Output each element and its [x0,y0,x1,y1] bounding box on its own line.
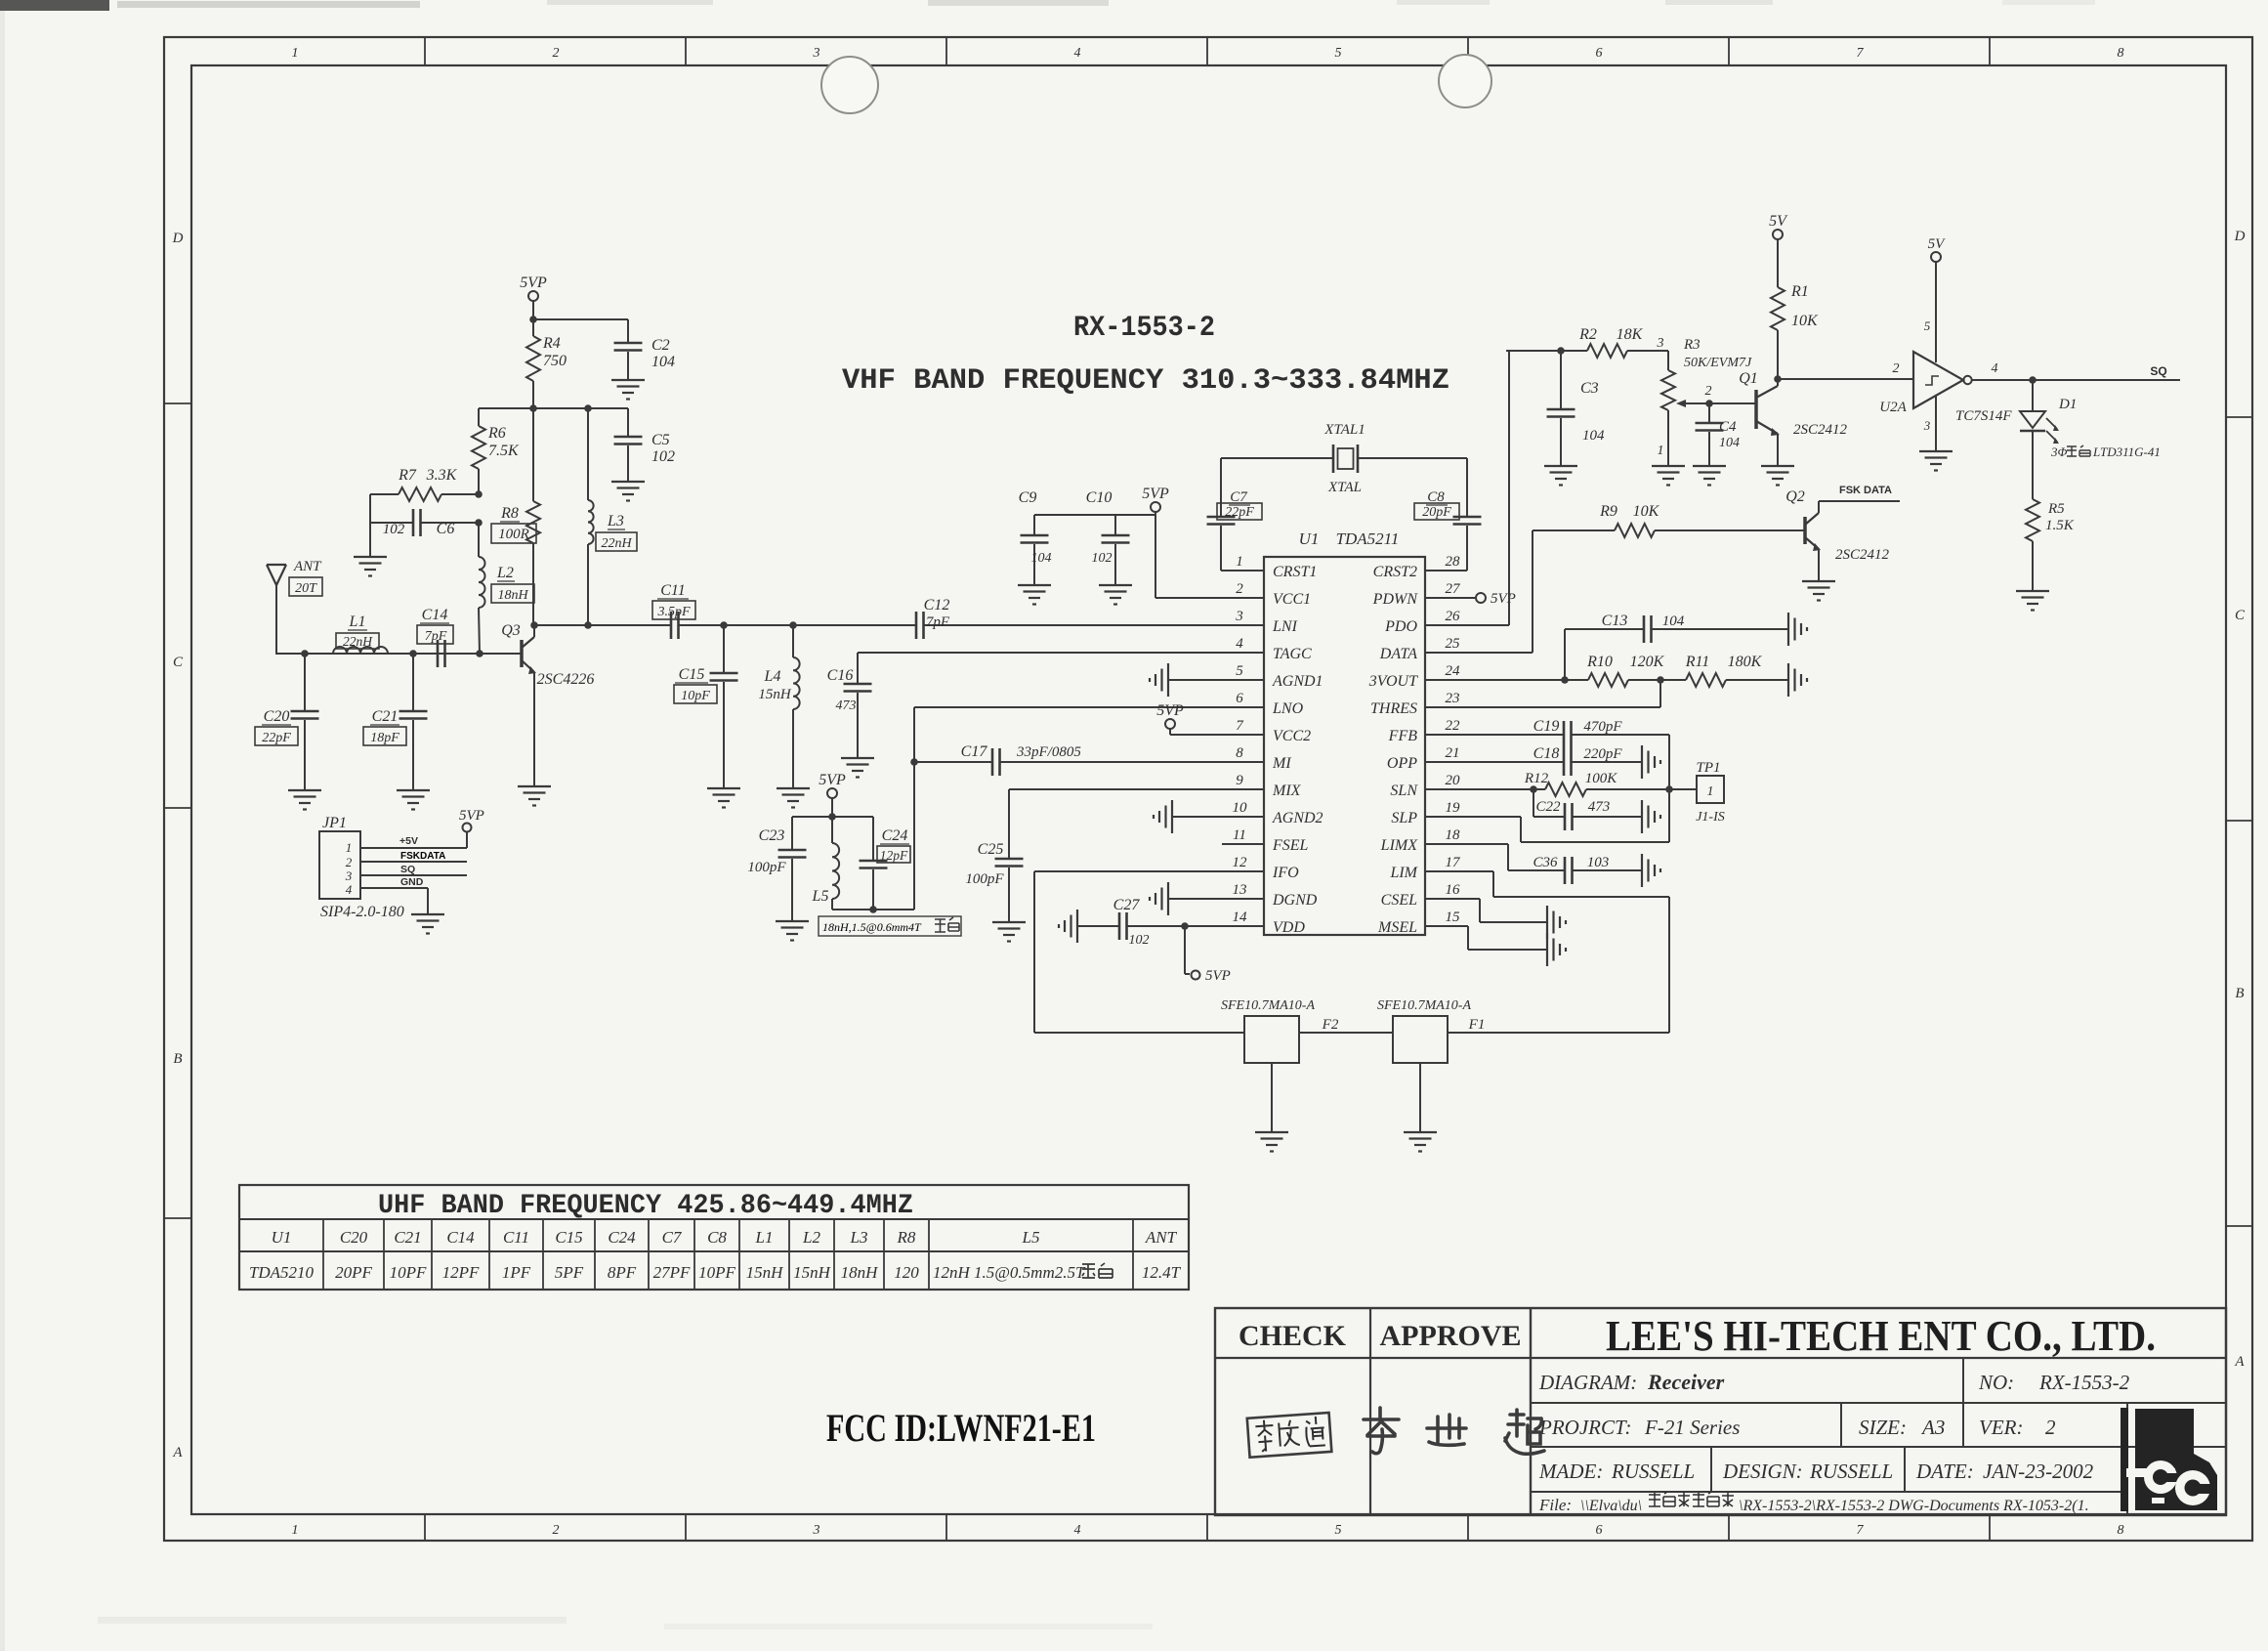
svg-text:5V: 5V [1928,236,1947,252]
svg-text:L5: L5 [812,888,829,905]
svg-text:5: 5 [1924,318,1931,333]
node LNO/C17 [910,758,918,766]
svg-text:+5V: +5V [399,835,418,847]
node R4/C2 junction [529,316,537,323]
svg-text:12PF: 12PF [442,1263,480,1282]
ground (R5) [2016,590,2049,592]
svg-text:DESIGN:: DESIGN: [1722,1460,1803,1483]
svg-text:C20: C20 [340,1228,368,1247]
ground (L4) [777,787,810,789]
svg-text:8PF: 8PF [608,1263,637,1282]
resistor R10 [1565,679,1588,681]
svg-text:5: 5 [1335,1523,1342,1538]
svg-text:RX-1553-2: RX-1553-2 [1073,312,1215,345]
capacitor C21 [412,654,414,710]
svg-text:VCC2: VCC2 [1273,728,1311,744]
svg-text:U1: U1 [1299,529,1320,548]
node 3VOUT/C13 [1561,676,1569,684]
svg-text:MADE:: MADE: [1538,1460,1603,1483]
power terminal 5VP (PDWN) [1476,593,1486,603]
svg-text:DATA: DATA [1379,646,1417,662]
node SLN/R12/C22 [1530,785,1537,793]
svg-text:3Φ: 3Φ [2050,444,2068,459]
svg-text:15nH: 15nH [793,1263,832,1282]
svg-text:JP1: JP1 [322,815,347,831]
svg-text:C24: C24 [608,1228,636,1247]
svg-text:4: 4 [1992,361,1998,376]
svg-text:C14: C14 [446,1228,475,1247]
svg-text:3.3K: 3.3K [426,467,458,484]
svg-text:17: 17 [1446,855,1462,870]
svg-text:MI: MI [1272,755,1291,772]
svg-text:C17: C17 [961,743,988,760]
svg-text:R1: R1 [1790,283,1809,300]
svg-text:C5: C5 [651,432,670,448]
capacitor C18 [1425,761,1564,763]
svg-text:20PF: 20PF [335,1263,372,1282]
svg-text:C16: C16 [827,667,854,684]
svg-text:C7: C7 [662,1228,683,1247]
ground (C16) [841,757,874,759]
ground (JP1) [411,913,444,915]
wire DATA pin25 [1425,652,1533,654]
svg-text:12pF: 12pF [880,848,908,863]
wire Q1 to U2A [1778,378,1913,380]
transistor Q3 [520,640,524,667]
capacitor C2 [627,319,629,342]
svg-text:5VP: 5VP [1491,591,1516,607]
svg-text:C13: C13 [1602,613,1628,629]
svg-text:10: 10 [1233,800,1248,816]
svg-text:2: 2 [1236,581,1243,597]
potentiometer R3 50K/EVM7J [1667,351,1669,370]
svg-text:2: 2 [1705,384,1712,399]
ground (C6 leg) [354,556,387,558]
node R6/R7 [475,490,483,498]
resistor R12 [1545,783,1586,796]
svg-text:5VP: 5VP [459,808,484,824]
ground (Q2 emitter) [1802,580,1835,582]
wire tank bottom rail [832,909,914,910]
svg-text:5: 5 [1335,46,1342,61]
connector JP1 [319,831,360,899]
wire U2A gnd pin3 [1935,396,1937,450]
resistor R8 [532,408,534,501]
transistor Q2 [1803,517,1807,544]
svg-text:5VP: 5VP [819,772,846,788]
svg-text:16: 16 [1446,882,1461,898]
capacitor C17 [914,761,992,763]
svg-text:Q3: Q3 [501,622,521,639]
svg-text:SFE10.7MA10-A: SFE10.7MA10-A [1377,998,1471,1013]
svg-text:18nH,1.5@0.6mm4T: 18nH,1.5@0.6mm4T [822,920,922,934]
svg-text:102: 102 [1129,933,1150,948]
svg-text:103: 103 [1587,855,1610,870]
svg-text:UHF BAND FREQUENCY 425.86~449.: UHF BAND FREQUENCY 425.86~449.4MHZ [378,1191,913,1221]
wire JP1 pin4 GND [360,887,428,889]
svg-text:7: 7 [1857,46,1865,61]
svg-text:102: 102 [1092,551,1113,566]
svg-text:18pF: 18pF [370,731,399,745]
svg-text:R5: R5 [2047,501,2065,517]
ground (C9) [1018,584,1051,586]
svg-text:C: C [173,655,184,670]
svg-text:4: 4 [1074,1523,1081,1538]
power terminal 5VP (L5 tank) [827,788,837,798]
capacitor C3 [1560,351,1562,408]
svg-text:DIAGRAM:: DIAGRAM: [1538,1371,1637,1394]
capacitor C36 [1425,843,1508,845]
wire FSK DATA net [1819,500,1900,502]
wire VCC1 net [1155,512,1156,598]
svg-text:ANT: ANT [293,559,322,574]
svg-text:CRST1: CRST1 [1273,564,1317,580]
svg-text:5: 5 [1236,663,1243,679]
svg-text:F-21 Series: F-21 Series [1644,1416,1740,1439]
ground (C25) [992,921,1026,923]
wire PDWN pin27 [1425,597,1476,599]
svg-text:R8: R8 [897,1228,916,1247]
svg-text:R2: R2 [1578,326,1597,343]
svg-text:C14: C14 [422,607,448,623]
svg-text:180K: 180K [1728,654,1763,670]
svg-text:26: 26 [1446,609,1461,624]
svg-text:104: 104 [651,354,675,370]
svg-text:7pF: 7pF [425,629,447,644]
svg-text:4: 4 [1074,46,1081,61]
svg-text:VHF BAND FREQUENCY 310.3~333.8: VHF BAND FREQUENCY 310.3~333.84MHZ [842,364,1449,398]
svg-text:10pF: 10pF [681,689,710,703]
resistor R2 [1506,350,1561,352]
svg-text:L3: L3 [850,1228,868,1247]
stamp (checker seal) [1247,1413,1332,1458]
svg-text:6: 6 [1596,1523,1603,1538]
svg-text:4: 4 [346,882,353,897]
node R4 bottom [529,404,537,412]
ground (C10) [1099,584,1132,586]
capacitor C10 [1114,515,1116,534]
capacitor C23 [791,817,793,849]
ground (C5) [611,481,645,483]
table UHF band values [239,1185,1189,1290]
svg-text:SIZE:: SIZE: [1859,1416,1907,1439]
svg-text:18: 18 [1446,827,1461,843]
svg-text:104: 104 [1582,428,1605,444]
svg-text:28: 28 [1446,554,1461,570]
node R10/R11 [1657,676,1664,684]
op-amp U2A TC7S14F (inverter) [1913,352,1963,408]
svg-text:FSKDATA: FSKDATA [400,851,445,862]
svg-text:5VP: 5VP [1142,486,1169,502]
svg-text:18nH: 18nH [497,588,528,603]
svg-text:LNI: LNI [1272,618,1298,635]
node C15 tap [720,621,728,629]
svg-text:100pF: 100pF [747,860,786,875]
svg-text:SIP4-2.0-180: SIP4-2.0-180 [320,904,404,920]
node C20 tap [301,650,309,657]
wire PDO pin26 [1425,624,1509,626]
ground (CSEL) [1546,906,1548,939]
svg-text:TAGC: TAGC [1273,646,1312,662]
svg-text:3: 3 [1923,418,1931,433]
wire U2A 5V pin5 [1935,262,1937,362]
svg-text:473: 473 [836,698,857,713]
svg-text:33pF/0805: 33pF/0805 [1016,744,1081,760]
svg-text:1PF: 1PF [502,1263,531,1282]
power terminal 5VP (VCC1) [1151,502,1160,512]
svg-text:25: 25 [1446,636,1461,652]
wire 3VOUT pin24 [1425,679,1565,681]
svg-text:J1-IS: J1-IS [1696,810,1725,825]
svg-text:24: 24 [1446,663,1461,679]
wire IFO pin12 [1034,870,1264,872]
logo (Lee) [2121,1408,2217,1511]
wire JP1 pin1 +5V [360,847,467,849]
wire TAGC net [858,652,1264,654]
svg-text:L2: L2 [496,565,514,581]
ground (F2) [1255,1131,1288,1133]
svg-text:File:: File: [1538,1496,1572,1514]
ground (C21) [397,789,430,791]
ground (MSEL) [1546,933,1548,966]
svg-text:11: 11 [1233,827,1246,843]
inductor L4 [792,625,794,657]
power terminal 5V (R1) [1773,230,1783,239]
svg-text:3: 3 [1657,336,1664,351]
wire SLN pin20 [1425,788,1533,790]
signature (approver) [1364,1408,1544,1454]
svg-text:1: 1 [292,1523,299,1538]
svg-text:JAN-23-2002: JAN-23-2002 [1983,1460,2094,1483]
svg-text:12: 12 [1233,855,1248,870]
wire C19 feedback leg [1668,735,1670,842]
antenna ANT [267,564,286,566]
value note L5 winding [819,916,961,936]
node L3 bottom [584,621,592,629]
node VDD tap [1181,922,1189,930]
inductor L5 [831,817,833,843]
power terminal 5VP (VCC2 pin7) [1165,719,1175,729]
svg-text:LIMX: LIMX [1380,837,1419,854]
ground (C3) [1544,465,1577,467]
svg-text:VDD: VDD [1273,919,1305,936]
wire JP1 pin2 FSKDATA [360,861,467,863]
wire CRST2 [1425,570,1467,571]
svg-text:U1: U1 [272,1228,292,1247]
ground (C27 left) [1076,910,1078,943]
node D1 tap [2029,376,2037,384]
node Q1 collector [1774,375,1782,383]
svg-text:8: 8 [2118,1523,2124,1538]
svg-text:IFO: IFO [1272,865,1299,881]
svg-text:C15: C15 [679,666,705,683]
svg-text:R10: R10 [1586,654,1613,670]
wire SQ output [1972,379,2180,381]
svg-text:C18: C18 [1533,745,1560,762]
ground (R11) [1787,663,1789,697]
svg-text:VER:: VER: [1979,1416,2023,1439]
svg-text:15nH: 15nH [758,687,792,702]
svg-text:22: 22 [1446,718,1461,734]
svg-text:C12: C12 [924,597,950,614]
svg-text:C20: C20 [264,708,290,725]
svg-text:XTAL1: XTAL1 [1323,422,1365,438]
power terminal 5VP (VDD) [1192,971,1200,980]
svg-text:FFB: FFB [1388,728,1418,744]
svg-text:23: 23 [1446,691,1460,706]
svg-text:C8: C8 [707,1228,727,1247]
testpoint TP1 J1-IS [1697,776,1724,803]
power terminal 5VP (JP1) [463,824,472,832]
wire CSEL pin16 [1425,898,1480,900]
svg-text:TP1: TP1 [1696,760,1720,776]
svg-text:102: 102 [651,448,675,465]
svg-text:R11: R11 [1685,654,1710,670]
capacitor C4 [1708,403,1710,422]
svg-text:2SC2412: 2SC2412 [1835,547,1890,563]
capacitor C20 [304,654,306,710]
ground (AGND2 pin10) [1172,816,1264,818]
svg-text:MIX: MIX [1272,783,1302,799]
svg-text:C15: C15 [555,1228,582,1247]
wire 5VP rail to C2 [533,318,628,320]
wire F1 to LIM [1448,1032,1669,1034]
wire antenna rail [275,653,522,655]
svg-text:100K: 100K [1585,771,1618,786]
svg-text:L5: L5 [1022,1228,1040,1247]
svg-text:22pF: 22pF [1225,505,1254,520]
svg-text:FCC ID:LWNF21-E1: FCC ID:LWNF21-E1 [826,1406,1096,1450]
svg-text:102: 102 [383,522,405,537]
svg-text:B: B [2235,986,2244,1001]
svg-text:5PF: 5PF [555,1263,584,1282]
capacitor C22 [1533,789,1534,817]
svg-text:D1: D1 [2058,397,2077,412]
capacitor C9 [1033,515,1035,534]
ground (C18) [1641,745,1643,779]
svg-text:2: 2 [553,1523,560,1538]
svg-text:SQ: SQ [2150,364,2166,378]
svg-text:L4: L4 [764,668,781,685]
svg-text:1: 1 [346,840,353,855]
ground (F1) [1404,1131,1437,1133]
capacitor C13 [1565,628,1644,630]
svg-text:A: A [2234,1354,2245,1370]
svg-text:220pF: 220pF [1583,746,1622,762]
ground (DGND pin13) [1168,898,1264,900]
capacitor C27 [1077,925,1119,927]
svg-text:10PF: 10PF [390,1263,427,1282]
ground (Q3 emitter) [518,785,551,787]
svg-text:A: A [172,1445,183,1460]
svg-text:120K: 120K [1630,654,1665,670]
svg-text:3: 3 [345,868,353,883]
wire crystal right [1358,457,1467,459]
title block [1215,1308,2226,1515]
svg-text:21: 21 [1446,745,1460,761]
svg-text:3VOUT: 3VOUT [1368,673,1418,690]
svg-text:CSEL: CSEL [1381,892,1417,909]
svg-text:RUSSELL: RUSSELL [1611,1460,1695,1483]
inductor L3 [587,408,589,500]
resistor R5 [2032,431,2034,499]
resistor R11 [1686,673,1726,687]
node Q3 collector [530,621,538,629]
node C24 bottom [869,906,877,913]
node L4 tap [789,621,797,629]
inductor L1 [333,647,388,654]
svg-text:C2: C2 [651,337,670,354]
svg-text:750: 750 [543,353,567,369]
svg-text:100R: 100R [498,527,529,542]
svg-text:THRES: THRES [1370,700,1417,717]
svg-text:L2: L2 [802,1228,820,1247]
svg-text:NO:: NO: [1978,1371,2014,1394]
svg-text:C25: C25 [978,841,1004,858]
svg-text:FSEL: FSEL [1272,837,1309,854]
svg-text:19: 19 [1446,800,1461,816]
capacitor C25 [1008,789,1010,858]
svg-text:SFE10.7MA10-A: SFE10.7MA10-A [1221,998,1315,1013]
diode D1 (LED) [2032,380,2034,410]
svg-text:Q1: Q1 [1739,370,1758,387]
wire JP1 pin3 SQ [360,874,467,876]
svg-text:1: 1 [1707,784,1714,799]
ground (C2) [611,379,645,381]
svg-text:C11: C11 [503,1228,529,1247]
svg-text:C: C [2235,608,2246,623]
node L2 base junction [476,650,483,657]
svg-text:LTD311G-41: LTD311G-41 [2092,444,2161,459]
power terminal 5V (U2A) [1931,252,1941,262]
wire C9/C10 rail [1034,514,1155,516]
capacitor C24 [872,817,874,860]
svg-text:14: 14 [1233,910,1248,925]
svg-text:F2: F2 [1322,1017,1339,1033]
svg-text:22pF: 22pF [262,731,291,745]
capacitor C14 [437,640,440,667]
wire THRES pin23 [1425,706,1660,708]
svg-text:7pF: 7pF [926,614,950,630]
resistor R4 [532,319,534,336]
node tank top [828,813,836,821]
node R6/C6 [475,519,483,527]
svg-text:2SC2412: 2SC2412 [1793,422,1848,438]
svg-text:8: 8 [1236,745,1243,761]
svg-text:ANT: ANT [1145,1228,1178,1247]
svg-text:1: 1 [292,46,299,61]
svg-text:U2A: U2A [1879,400,1907,415]
wire R7/C6 left leg [369,494,371,556]
svg-text:GND: GND [400,876,424,888]
svg-text:104: 104 [1031,551,1052,566]
op-amp U1 TDA5211 (IC body) [1264,557,1425,935]
svg-text:TC7S14F: TC7S14F [1955,408,2012,424]
capacitor C16 [857,653,859,683]
svg-text:3: 3 [1235,609,1243,624]
node wiper/C4 [1705,400,1713,407]
svg-text:DGND: DGND [1272,892,1318,909]
capacitor C15 [723,625,725,672]
svg-text:R3: R3 [1683,337,1701,353]
wire LIM pin17 [1425,870,1493,872]
wire collector rail [534,624,671,626]
svg-text:473: 473 [1588,799,1611,815]
svg-text:C24: C24 [882,827,908,844]
svg-text:R7: R7 [398,467,417,484]
svg-text:L1: L1 [755,1228,774,1247]
svg-text:104: 104 [1719,436,1740,450]
